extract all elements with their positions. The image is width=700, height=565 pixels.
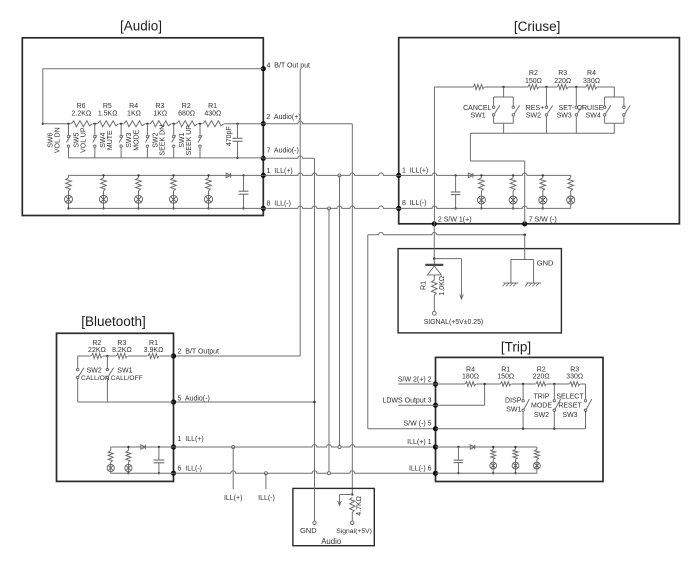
svg-text:SIGNAL(+5V±0.25): SIGNAL(+5V±0.25)	[424, 319, 484, 326]
lamp LP1 with resistor (Cruise illumination)	[477, 175, 485, 208]
svg-text:2 B/T Output: 2 B/T Output	[178, 348, 220, 355]
wire GND vertical into signal box	[524, 235, 526, 260]
svg-text:ILL(-): ILL(-)	[258, 495, 275, 502]
svg-text:RESET: RESET	[558, 403, 582, 410]
node ILL(+) lower junction to label	[232, 446, 235, 449]
svg-text:[Audio]: [Audio]	[120, 19, 162, 34]
svg-text:SW1: SW1	[117, 368, 132, 375]
node Audio ILL(+) junction 2	[102, 174, 104, 176]
svg-text:1.0KΩ: 1.0KΩ	[439, 276, 446, 296]
lamp LP1 with resistor (Audio illumination)	[65, 175, 73, 208]
wire B/T net vertical	[299, 69, 301, 356]
wire Cruise S/W1(+) vertical to pin 2	[433, 87, 435, 224]
resistor R1 3.9KΩ (Bluetooth)	[144, 340, 164, 360]
node Trip ILL(-) junction 1	[492, 472, 494, 474]
svg-text:8 ILL(-): 8 ILL(-)	[267, 200, 292, 207]
svg-text:6 ILL(-): 6 ILL(-)	[178, 465, 203, 472]
svg-text:220Ω: 220Ω	[554, 78, 571, 85]
svg-text:R1: R1	[501, 367, 510, 374]
node Audio ILL(-) junction 5	[207, 207, 209, 209]
switch SW2 SEEK DN (Audio)	[153, 124, 176, 158]
svg-text:S/W (-) 5: S/W (-) 5	[404, 421, 432, 428]
node ILL(+) lower junction to link	[338, 446, 341, 449]
node Bluetooth pin 6 ILL(-)	[171, 471, 176, 476]
label Trip pin 5	[404, 421, 432, 428]
switch SW3 MODE (Audio)	[126, 124, 149, 158]
wire ILL(+) net link vertical	[339, 175, 341, 447]
svg-text:SET-: SET-	[559, 105, 575, 112]
wire Audio ILL(-) rail	[69, 207, 264, 209]
svg-text:470pF: 470pF	[226, 126, 233, 146]
node Audio tap 4	[146, 123, 148, 125]
svg-text:SW2: SW2	[153, 133, 160, 148]
node ILL(-) lower junction to label	[264, 472, 267, 475]
label Cruise pin 2 S/W 1(+)	[438, 217, 472, 224]
svg-text:2 Audio(+): 2 Audio(+)	[267, 114, 301, 121]
svg-text:R3: R3	[117, 340, 126, 347]
node Trip pin 3 LDWS Output	[433, 403, 438, 408]
diode D1 (Cruise ILL)	[468, 173, 473, 178]
ground GND bracket	[511, 260, 534, 284]
wire Trip S/W2(+) stub	[398, 383, 435, 385]
wire Audio(+) resistor chain rail	[43, 123, 263, 125]
diode D1 (Audio ILL)	[226, 173, 231, 178]
svg-text:SELECT: SELECT	[556, 393, 584, 400]
wire S/W(-) horizontal into Trip pin 5	[368, 428, 436, 430]
wire ILL(+) net lower horizontal	[174, 445, 436, 447]
wire S/W(-) horizontal from Cruise pin7	[368, 232, 525, 234]
arrow signal direction	[434, 259, 463, 299]
svg-text:SW4: SW4	[586, 113, 601, 120]
node Bluetooth pin 2 B/T Output	[171, 353, 176, 358]
node Cruise pin 2 S/W 1(+)	[432, 221, 437, 226]
wire Audio(-) net horizontal	[263, 156, 314, 158]
wire Bluetooth resistor rail	[78, 355, 174, 357]
wire Cruise switch common rail	[470, 132, 614, 134]
wire Cruise ILL(+) rail	[399, 173, 571, 175]
svg-text:R4: R4	[129, 103, 138, 110]
node Audio(-)/GND tee	[313, 401, 316, 404]
resistor R4 180Ω (Trip)	[462, 367, 479, 389]
svg-text:VOL UP: VOL UP	[81, 127, 88, 153]
switch SW2 TRIP MODE (Trip)	[531, 384, 561, 429]
node Audio ILL(+) junction 3	[137, 174, 139, 176]
label pin 8 ILL(-)	[267, 200, 292, 207]
node Bluetooth ILL(+) junction	[127, 446, 129, 448]
svg-text:TRIP: TRIP	[534, 393, 550, 400]
svg-text:CALL/OFF: CALL/OFF	[111, 375, 143, 382]
svg-text:VOL DN: VOL DN	[54, 127, 61, 153]
svg-text:2 S/W 1(+): 2 S/W 1(+)	[438, 217, 472, 224]
node Bluetooth ILL(-) junction	[127, 472, 129, 474]
node Cruise rail tap RES+	[545, 86, 547, 88]
wire Trip resistor rail	[436, 383, 586, 385]
node Trip S/W(-) junction SW2	[553, 428, 555, 430]
wire Bluetooth ILL(-) rail	[111, 472, 174, 474]
node Cruise pin 1 ILL(+)	[396, 173, 401, 178]
svg-text:GND: GND	[300, 526, 317, 535]
svg-text:Audio: Audio	[321, 537, 342, 546]
wire to Signal terminal	[351, 513, 353, 522]
resistor R2 22KΩ (Bluetooth)	[88, 340, 106, 360]
wire ILL(+) net upper horizontal	[263, 173, 398, 175]
label GND (audio box)	[300, 526, 317, 535]
label Bluetooth pin 1	[178, 436, 204, 443]
node Audio ILL(-) junction 2	[102, 207, 104, 209]
resistor R4 330Ω (Cruise)	[583, 70, 600, 91]
lamp LP2 with resistor (Audio illumination)	[100, 175, 108, 208]
svg-text:R3: R3	[155, 103, 164, 110]
label SIGNAL(+5V±0.25)	[424, 319, 484, 326]
resistor R3 330Ω (Trip)	[566, 367, 583, 389]
label [Audio] title	[120, 19, 162, 34]
svg-text:[Trip]: [Trip]	[501, 340, 531, 355]
svg-text:4 B/T Out put: 4 B/T Out put	[267, 62, 311, 69]
svg-text:[Criuse]: [Criuse]	[514, 19, 561, 34]
label Cruise pin 8 ILL(-)	[402, 200, 427, 207]
switch SW3 SET- (Cruise)	[557, 87, 583, 133]
resistor R1 4.7KΩ (audio box)	[350, 496, 363, 516]
wire Audio(+) net vertical	[351, 124, 353, 495]
svg-text:GND: GND	[537, 258, 554, 267]
wire GND vertical into audio box	[314, 473, 316, 521]
wire Trip ILL(-) rail	[436, 472, 537, 474]
label pin 1 ILL(+)	[267, 168, 293, 175]
node Trip rail tap LDWS	[483, 383, 485, 385]
svg-text:8.2KΩ: 8.2KΩ	[112, 347, 132, 354]
lamp LP3 with resistor (Cruise illumination)	[539, 175, 547, 208]
label GND	[537, 258, 554, 267]
svg-text:SW5: SW5	[74, 133, 81, 148]
wire Trip ILL(+) rail	[436, 446, 537, 448]
resistor R2 680Ω (Audio)	[176, 103, 198, 129]
resistor R3 1KΩ (Audio)	[150, 103, 172, 129]
svg-text:R5: R5	[103, 103, 112, 110]
label Trip pin 6	[409, 465, 432, 472]
svg-text:ILL(+) 1: ILL(+) 1	[407, 439, 431, 446]
switch SW4 CRUISE (Cruise)	[577, 87, 630, 133]
connector box [Audio]	[22, 38, 263, 216]
lamp LP3 with resistor (Trip illumination)	[534, 447, 541, 473]
node Audio ILL(-) junction 3	[137, 207, 139, 209]
svg-text:R2: R2	[529, 70, 538, 77]
svg-text:R3: R3	[558, 70, 567, 77]
svg-text:R2: R2	[537, 367, 546, 374]
lamp LP1 with resistor (Trip illumination)	[490, 447, 497, 473]
label pin 4 B/T Out put	[267, 62, 311, 69]
wire Cruise S/W(-) vertical to pin 7	[524, 161, 526, 224]
label Cruise pin 7 S/W (-)	[529, 217, 557, 224]
node ILL(+) upper junction	[338, 174, 341, 177]
switch SW4 MUTE (Audio)	[100, 124, 123, 158]
svg-text:SEEK UP: SEEK UP	[186, 125, 193, 156]
node Cruise ILL(-) junction 2	[512, 207, 514, 209]
node Audio tap 6	[199, 123, 201, 125]
lamp LP3 with resistor (Audio illumination)	[135, 175, 143, 208]
svg-text:SW1: SW1	[179, 133, 186, 148]
node Cruise rail tap SET-	[575, 86, 577, 88]
label [Criuse] title	[514, 19, 561, 34]
svg-text:3.9KΩ: 3.9KΩ	[144, 347, 164, 354]
wire Cruise switch resistor rail	[434, 86, 614, 88]
terminal GND (audio box)	[313, 521, 316, 524]
capacitor 470pF (Audio)	[226, 123, 242, 159]
svg-text:8 ILL(-): 8 ILL(-)	[402, 200, 427, 207]
capacitor C1 (Trip ILL)	[454, 446, 464, 475]
svg-text:MODE: MODE	[133, 129, 140, 150]
svg-text:MUTE: MUTE	[107, 130, 114, 150]
label pin 7 Audio(-)	[267, 148, 299, 155]
svg-text:R1: R1	[420, 281, 427, 290]
svg-text:ILL(-) 6: ILL(-) 6	[409, 465, 432, 472]
capacitor C1 (Bluetooth ILL)	[154, 446, 165, 475]
node Audio ILL(+) junction 4	[172, 174, 174, 176]
svg-text:5 Audio(-): 5 Audio(-)	[178, 396, 210, 403]
svg-text:22KΩ: 22KΩ	[88, 347, 106, 354]
svg-text:ILL(+): ILL(+)	[224, 495, 242, 502]
svg-text:SW1: SW1	[506, 406, 521, 413]
resistor R3 220Ω (Cruise)	[554, 70, 571, 91]
node ILL(-) upper junction	[328, 207, 331, 210]
node Cruise rail tap CANCEL	[502, 86, 504, 88]
node Audio tap 3	[120, 123, 122, 125]
svg-text:430Ω: 430Ω	[204, 111, 221, 118]
node Bluetooth tap SW1	[106, 355, 108, 357]
node Audio pin 7 Audio(-)	[261, 156, 266, 161]
resistor R1 (Cruise, unlabeled)	[473, 83, 484, 91]
label Bluetooth pin 2	[178, 348, 220, 355]
resistor R4 1KΩ (Audio)	[123, 103, 145, 129]
label [Trip] title	[501, 340, 531, 355]
svg-text:1KΩ: 1KΩ	[127, 111, 141, 118]
node Cruise pin 8 ILL(-)	[396, 206, 401, 211]
lamp LP2 with resistor (Trip illumination)	[512, 447, 519, 473]
svg-text:DISP: DISP	[505, 398, 522, 405]
wire ILL(-) net link vertical	[328, 208, 330, 473]
switch SW5 VOL UP (Audio)	[74, 124, 97, 158]
switch SW6 VOL DN (Audio)	[47, 124, 70, 158]
lamp LP4 with resistor (Audio illumination)	[170, 175, 178, 208]
connector box [Criuse]	[399, 38, 680, 224]
svg-text:CALL/ON: CALL/ON	[81, 375, 110, 382]
svg-text:1KΩ: 1KΩ	[153, 111, 167, 118]
switch SW2 RES+ (Cruise)	[526, 87, 553, 133]
resistor R5 1.5KΩ (Audio)	[97, 103, 119, 129]
connector box [Trip]	[436, 357, 604, 481]
node Cruise ILL(+) junction 3	[542, 174, 544, 176]
node Trip rail tap SW2	[553, 383, 555, 385]
node Trip rail tap SW1	[522, 383, 524, 385]
label Trip pin 2	[398, 377, 432, 384]
label Signal(+5V)	[336, 528, 372, 535]
resistor R6 2.2KΩ (Audio)	[71, 103, 93, 129]
wire ILL(-) label drop	[265, 473, 267, 489]
node Audio ILL(-) junction 4	[172, 207, 174, 209]
svg-text:R3: R3	[570, 367, 579, 374]
lamp LP2 with resistor (Bluetooth illumination)	[125, 447, 132, 473]
wire S/W1(+) vertical into signal box	[433, 224, 435, 259]
wire Audio ILL(+) rail	[69, 174, 264, 176]
node Cruise ILL(-) junction 1	[480, 207, 482, 209]
svg-text:R1: R1	[149, 340, 158, 347]
node Audio pin 1 ILL(+)	[261, 173, 266, 178]
svg-text:330Ω: 330Ω	[583, 78, 600, 85]
wire Cruise common jog down	[469, 133, 471, 161]
ground chassis symbol left	[502, 283, 518, 286]
lamp LP4 with resistor (Cruise illumination)	[567, 175, 575, 208]
node Cruise ILL(+) junction 2	[512, 174, 514, 176]
node Audio tap 5	[173, 123, 175, 125]
node Cruise ILL(-) junction 3	[542, 207, 544, 209]
svg-text:R2: R2	[92, 340, 101, 347]
node Audio(+) branch	[351, 493, 353, 495]
svg-text:SEEK DN: SEEK DN	[160, 125, 167, 156]
svg-text:Signal(+5V): Signal(+5V)	[336, 528, 372, 535]
wire ILL(-) net upper horizontal	[263, 206, 398, 208]
svg-text:R1: R1	[208, 103, 217, 110]
svg-text:SW6: SW6	[47, 133, 54, 148]
svg-text:4.7KΩ: 4.7KΩ	[356, 496, 363, 516]
node signal junction	[433, 257, 436, 260]
wire to SIGNAL terminal	[433, 295, 435, 311]
svg-text:R4: R4	[587, 70, 596, 77]
node Audio pin 8 ILL(-)	[261, 206, 266, 211]
node Trip pin 5 S/W (-)	[433, 426, 438, 431]
label Cruise pin 1 ILL(+)	[402, 167, 428, 174]
svg-text:SW3: SW3	[562, 412, 577, 419]
node Audio tap 1	[67, 123, 69, 125]
diode D1 zener (signal box)	[425, 259, 443, 280]
resistor R2 150Ω (Cruise)	[525, 70, 542, 91]
wire Audio B/T output rail	[43, 68, 263, 70]
wire Cruise ILL(-) rail	[399, 206, 571, 208]
node Bluetooth pin 5 Audio(-)	[171, 399, 176, 404]
wire Trip S/W(-) rail	[436, 428, 586, 430]
svg-text:SW3: SW3	[557, 113, 572, 120]
lamp LP5 with resistor (Audio illumination)	[205, 175, 213, 208]
svg-text:R2: R2	[182, 103, 191, 110]
label node ILL(-)	[258, 495, 275, 502]
svg-text:150Ω: 150Ω	[525, 78, 542, 85]
node Audio ILL(-) junction 1	[67, 207, 69, 209]
wire Trip LDWS stub	[398, 404, 435, 406]
svg-text:1 ILL(+): 1 ILL(+)	[267, 168, 293, 175]
terminal Signal(+5V)	[351, 521, 354, 524]
svg-text:SW4: SW4	[100, 133, 107, 148]
wire Trip LDWS internal	[436, 384, 485, 405]
label Bluetooth pin 5	[178, 396, 210, 403]
node Audio ILL(+) junction 5	[207, 174, 209, 176]
wire ILL(+) label drop	[232, 447, 234, 489]
label Trip pin 1	[407, 439, 431, 446]
svg-text:SW2: SW2	[534, 412, 549, 419]
terminal SIGNAL	[432, 311, 436, 315]
signal box	[398, 249, 561, 333]
svg-text:2.2KΩ: 2.2KΩ	[72, 111, 92, 118]
svg-text:[Bluetooth]: [Bluetooth]	[81, 314, 146, 329]
svg-text:1 ILL(+): 1 ILL(+)	[178, 436, 204, 443]
node ILL(-) lower junction to link	[328, 472, 331, 475]
svg-text:7 S/W (-): 7 S/W (-)	[529, 217, 557, 224]
switch SW1 CANCEL (Cruise)	[463, 87, 520, 133]
wire Audio(-)/GND net vertical	[314, 158, 316, 519]
node Bluetooth pin 1 ILL(+)	[171, 444, 176, 449]
wire Cruise common jog right	[470, 160, 524, 162]
wire Bluetooth ILL(+) rail	[111, 446, 174, 448]
arrow audio signal direction	[338, 495, 353, 506]
node S/W(-) tee at pin7 vertical	[523, 234, 526, 237]
wire S/W(-) vertical down	[367, 235, 369, 429]
svg-text:SW2: SW2	[526, 113, 541, 120]
node Trip pin 1 ILL(+)	[433, 444, 438, 449]
capacitor C1 (Audio ILL)	[239, 174, 249, 209]
node Trip ILL(+) junction 2	[514, 446, 516, 448]
switch SW3 SELECT RESET (Trip)	[556, 384, 591, 429]
svg-text:330Ω: 330Ω	[566, 374, 583, 381]
svg-text:180Ω: 180Ω	[462, 374, 479, 381]
resistor R1 1.0KΩ (signal box)	[420, 276, 446, 296]
label Trip pin 3	[382, 398, 431, 405]
label Audio (audio box)	[321, 537, 342, 546]
svg-text:MODE: MODE	[531, 403, 552, 410]
node Cruise ILL(+) junction 1	[480, 174, 482, 176]
svg-text:220Ω: 220Ω	[533, 374, 550, 381]
wire Audio(-) rail	[69, 157, 264, 159]
switch SW2 CALL/ON (Bluetooth)	[77, 356, 110, 402]
label pin 2 Audio(+)	[267, 114, 301, 121]
lamp LP2 with resistor (Cruise illumination)	[509, 175, 517, 208]
svg-text:CANCEL: CANCEL	[463, 105, 492, 112]
lamp LP1 with resistor (Bluetooth illumination)	[107, 447, 114, 473]
svg-text:7 Audio(-): 7 Audio(-)	[267, 148, 299, 155]
svg-text:LDWS Output 3: LDWS Output 3	[382, 398, 431, 405]
svg-text:RES+: RES+	[526, 105, 544, 112]
switch SW1 CALL/OFF (Bluetooth)	[106, 356, 143, 402]
switch SW1 DISP (Trip)	[505, 384, 529, 429]
node Audio pin 4 B/T Output	[261, 66, 266, 71]
svg-text:SW3: SW3	[126, 133, 133, 148]
node Trip pin 2 S/W 2(+)	[433, 381, 438, 386]
diode D1 (Trip ILL)	[470, 445, 475, 450]
node Cruise pin 7 S/W (-)	[522, 221, 527, 226]
audio signal box	[293, 488, 374, 545]
wire B/T net horizontal to Bluetooth pin 2	[174, 355, 301, 357]
ground chassis symbol right	[525, 283, 541, 286]
svg-text:SW1: SW1	[471, 113, 486, 120]
resistor R2 220Ω (Trip)	[533, 367, 550, 389]
connector box [Bluetooth]	[57, 333, 174, 481]
node Audio chain left corner	[42, 123, 44, 125]
label Bluetooth pin 6	[178, 465, 203, 472]
label [Bluetooth] title	[81, 314, 146, 329]
wire Audio left vertical to resistor chain	[42, 69, 44, 124]
wire Bluetooth Audio(-) horizontal	[174, 401, 315, 403]
node Trip ILL(-) junction 2	[514, 472, 516, 474]
wire Bluetooth Audio(-) internal rail	[78, 401, 174, 403]
switch SW1 SEEK UP (Audio)	[179, 124, 202, 158]
capacitor C1 (Cruise ILL)	[451, 174, 461, 209]
diode D1 (Bluetooth ILL)	[141, 445, 146, 450]
svg-text:1 ILL(+): 1 ILL(+)	[402, 167, 428, 174]
wire ILL(-) net lower horizontal	[174, 471, 436, 473]
svg-text:SW2: SW2	[87, 368, 102, 375]
svg-text:R6: R6	[77, 103, 86, 110]
svg-text:S/W 2(+) 2: S/W 2(+) 2	[398, 377, 432, 384]
svg-text:1.5KΩ: 1.5KΩ	[98, 111, 118, 118]
wire Audio(+) net horizontal	[263, 121, 352, 123]
resistor R3 8.2KΩ (Bluetooth)	[112, 340, 132, 360]
label node ILL(+)	[224, 495, 242, 502]
